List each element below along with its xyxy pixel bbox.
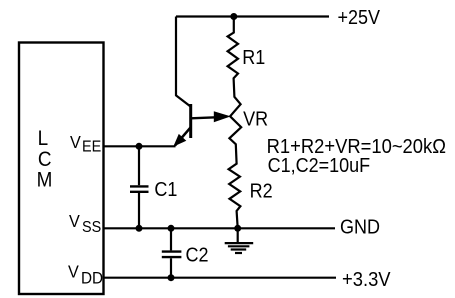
svg-text:EE: EE — [82, 138, 101, 156]
svg-text:C1: C1 — [154, 179, 177, 201]
svg-text:V: V — [69, 211, 80, 231]
svg-text:VR: VR — [243, 109, 268, 131]
svg-text:SS: SS — [82, 218, 101, 236]
svg-text:L: L — [38, 127, 49, 150]
svg-text:V: V — [70, 132, 81, 152]
svg-text:C2: C2 — [186, 245, 209, 267]
svg-text:+25V: +25V — [338, 7, 381, 29]
svg-text:M: M — [37, 168, 53, 191]
svg-text:+3.3V: +3.3V — [342, 269, 391, 291]
svg-text:R1: R1 — [242, 47, 265, 69]
svg-text:GND: GND — [340, 216, 380, 238]
svg-text:DD: DD — [81, 269, 103, 288]
svg-text:C1,C2=10uF: C1,C2=10uF — [268, 155, 371, 177]
svg-text:R2: R2 — [250, 181, 273, 203]
svg-text:V: V — [68, 262, 79, 282]
